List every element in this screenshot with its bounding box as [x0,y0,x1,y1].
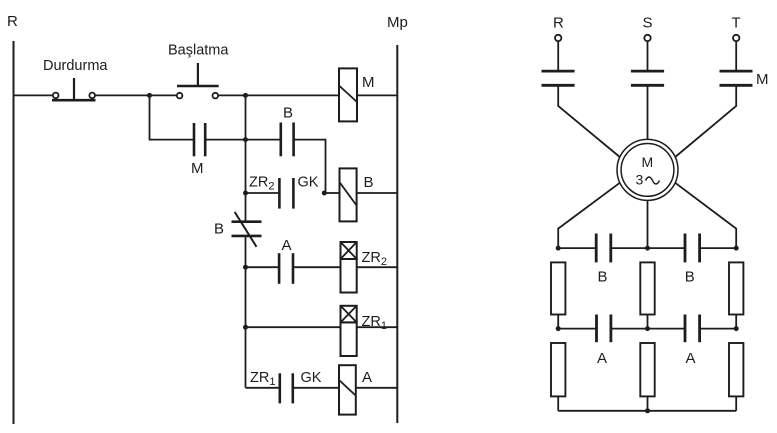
junction [556,246,561,251]
wire row2 middle stub [647,396,649,410]
wire T terminal to contact [735,41,737,70]
wire rung5 to coil ZR1 [246,326,341,328]
wire top bus middle [611,247,685,249]
relay coil A [339,365,372,414]
node T phase terminal [732,15,741,42]
svg-text:ZR1: ZR1 [250,370,275,388]
wire left rail [13,41,15,424]
node S phase terminal [643,15,653,42]
svg-text:M: M [642,154,654,170]
junction [243,265,248,270]
svg-text:B: B [598,268,608,285]
wire bottom bus [558,410,736,412]
contact B (NC thermal, on vertical branch) [214,212,262,247]
svg-text:M: M [756,71,769,88]
junction [734,326,739,331]
wire motor to left rotor node [558,183,620,248]
wire start button to junction [218,94,245,96]
wire top bus right [700,247,737,249]
junction [645,408,650,413]
wire motor to middle rotor node [647,200,649,248]
time relay coil ZR2 [341,242,387,293]
contact M phase R [542,71,575,85]
wire rung1 from rail to stop button [14,94,53,96]
wire middle bus middle [611,328,685,330]
resistor row1 middle [640,262,654,314]
time relay coil ZR1 [341,306,387,356]
contact A right [685,315,700,368]
svg-text:Başlatma: Başlatma [168,43,229,59]
wire branch down to M contact rung [150,95,195,139]
contact ZR2 / GK [249,175,319,209]
svg-text:ZR2: ZR2 [249,175,274,193]
wire S terminal to contact [647,41,649,70]
wire junction to coil B [324,192,339,194]
svg-text:T: T [732,15,741,32]
junction [322,191,327,196]
junction [645,246,650,251]
wire coil ZR2 to right rail [357,266,398,268]
wire contact B down to rung 3 [294,140,326,193]
node R phase terminal [553,15,564,42]
resistor row2 left [551,343,565,396]
svg-text:S: S [643,15,653,32]
wire coil A to right rail [356,387,398,389]
relay coil M [339,68,375,121]
wire main vertical branch upper [245,95,247,221]
pushbutton Başlatma (NO start) [168,43,229,99]
wire motor to right rotor node [675,183,736,248]
svg-text:Mp: Mp [387,14,408,31]
junction [734,246,739,251]
motor M 3~ [617,139,678,200]
relay coil B [340,168,374,221]
junction [243,137,248,142]
resistor row1 right [729,262,743,314]
svg-text:ZR1: ZR1 [362,314,387,332]
wire contact R to motor [558,85,620,157]
wire coil B to right rail [357,192,398,194]
wire contact T to motor [675,85,736,157]
junction [243,325,248,330]
svg-text:GK: GK [301,370,322,386]
wire stop button to junction [95,94,150,96]
svg-text:R: R [553,15,564,32]
wire rung4 to contact A [246,266,280,268]
junction [556,326,561,331]
wire junction to contact B [246,139,281,141]
wire row1 right stub [735,315,737,329]
resistor row2 middle [640,343,654,396]
contact A (NO) [279,237,293,284]
svg-text:B: B [685,268,695,285]
contact ZR1 / GK [250,370,322,403]
wire contact A to coil ZR2 [293,266,341,268]
svg-text:B: B [364,174,374,191]
svg-text:A: A [362,369,372,386]
wire middle bus right [700,328,737,330]
svg-text:R: R [7,13,18,30]
wire main vertical branch lower [245,236,247,388]
wire contact M to junction [205,139,245,141]
junction [147,93,152,98]
wire row2 right stub [735,396,737,410]
wire middle bus left [558,328,596,330]
junction [243,93,248,98]
wire R terminal to contact [557,41,559,70]
wire rung6 from branch corner to contact ZR1 [246,387,280,389]
svg-text:GK: GK [298,175,319,191]
contact M phase T [720,71,769,88]
wire row2 left stub [557,396,559,410]
contact B left [596,234,611,286]
pushbutton Durdurma (NC stop) [43,58,108,100]
contact B right [685,234,700,286]
resistor row1 left [551,262,565,314]
wire coil ZR1 to right rail [357,326,398,328]
wire row1 left stub [557,315,559,329]
wire row1 middle stub [647,315,649,329]
wire rung3 to contact ZR2 [246,192,280,194]
junction [243,191,248,196]
wire right rail [396,45,398,423]
contact M phase S [631,71,664,85]
svg-text:B: B [214,221,224,238]
wire coil M to right rail [357,94,397,96]
svg-text:A: A [282,237,292,254]
wire contact S to motor [647,85,649,139]
svg-text:3: 3 [636,172,644,188]
wire junction to start button [150,94,177,96]
svg-text:ZR2: ZR2 [362,250,387,268]
wire junction to coil M [246,94,340,96]
svg-text:M: M [191,160,204,177]
svg-text:M: M [362,74,375,91]
resistor row2 right [729,343,743,396]
svg-text:Durdurma: Durdurma [43,58,108,74]
junction [645,326,650,331]
svg-text:A: A [597,350,607,367]
wire top bus left [558,247,596,249]
contact B (NO) [281,105,294,157]
svg-text:B: B [283,105,293,122]
wire contact to coil A [293,387,339,389]
svg-text:A: A [686,350,696,367]
contact M (self hold) [191,123,205,177]
contact A left [597,315,611,368]
